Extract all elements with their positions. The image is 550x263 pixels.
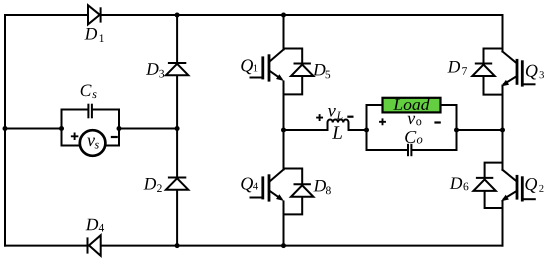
label Cs (81, 85, 97, 99)
wire inductor to load node (349, 129, 367, 131)
plus vo (380, 119, 385, 124)
label vs (87, 138, 99, 149)
diode D4 (88, 235, 101, 256)
node Q column middle (281, 128, 286, 133)
wire vs loop (62, 129, 120, 146)
transistor Q1 (251, 50, 284, 81)
minus vo (436, 121, 440, 123)
node vs left (59, 126, 64, 131)
wire Q1-Q4 column (283, 15, 285, 246)
capacitor Co (408, 145, 411, 155)
node D3 top (175, 13, 180, 18)
wire load node to right column (457, 129, 503, 131)
label vL (328, 108, 343, 119)
label Load (393, 98, 429, 109)
inductor L (328, 119, 349, 130)
node right column middle (500, 128, 505, 133)
diode D6 (473, 178, 495, 191)
wire Q1 diode bridge (284, 49, 303, 95)
node left rail (3, 126, 8, 131)
wire Q2 diode bridge (485, 163, 503, 208)
diode D2 (166, 178, 188, 190)
label Q1 (241, 59, 257, 74)
label L (332, 126, 342, 138)
wire Cs loop (62, 110, 120, 129)
source vs (80, 130, 106, 156)
load box (383, 98, 441, 113)
wire source to D-leg (119, 128, 177, 130)
node Q1 top (281, 13, 286, 18)
label Q3 (526, 65, 544, 80)
label Co (405, 131, 422, 144)
wire left rail (4, 15, 6, 246)
diode D5 (291, 64, 313, 77)
capacitor Cs (88, 105, 92, 118)
wire load top branch (367, 105, 457, 130)
label D4 (86, 219, 104, 232)
diode D7 (472, 64, 494, 77)
wire Co bottom branch (367, 130, 457, 150)
node load right (454, 128, 459, 133)
wire Q3-Q2 column (502, 15, 504, 246)
plus vs (72, 134, 78, 140)
label Q2 (525, 178, 543, 193)
wire inductor feed (284, 129, 328, 131)
diode D1 (88, 5, 101, 24)
node D2 bottom (175, 243, 180, 248)
wire top rail (5, 14, 503, 16)
label D8 (313, 180, 330, 194)
minus vs (112, 136, 117, 138)
wire D3-D2 column (176, 15, 178, 246)
transistor Q2 (501, 170, 535, 201)
diode D8 (291, 184, 313, 197)
wire Q4 diode bridge (284, 169, 303, 215)
label D5 (313, 64, 330, 78)
wire Q3 diode bridge (484, 49, 503, 95)
node Q4 bottom (281, 243, 286, 248)
node load left (364, 128, 369, 133)
minus vL (348, 116, 352, 118)
diode D3 (166, 63, 188, 75)
label D6 (450, 177, 469, 190)
transistor Q3 (501, 52, 534, 87)
label D2 (144, 178, 162, 192)
label D7 (448, 61, 468, 75)
label D3 (146, 63, 164, 77)
transistor Q4 (251, 170, 284, 201)
plus vL (317, 115, 322, 120)
label vo (407, 116, 421, 126)
label Q4 (241, 177, 258, 192)
wire left middle to source (5, 128, 62, 130)
node D-leg middle (175, 126, 180, 131)
wire bottom rail (5, 245, 503, 247)
label D1 (85, 28, 104, 42)
node vs right (117, 126, 122, 131)
